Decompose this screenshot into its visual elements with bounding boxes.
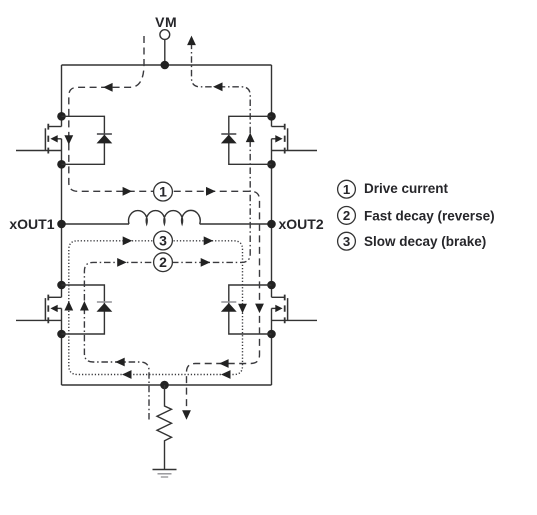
- wire top rail: [62, 64, 272, 66]
- arrow path1 left (bottom): [219, 359, 229, 368]
- node Q4 drain: [267, 281, 276, 290]
- legend circled 3: [338, 232, 356, 250]
- svg-text:VM: VM: [155, 14, 177, 30]
- legend label fast decay: [364, 208, 495, 223]
- arrow path3 left (bottom, left): [122, 370, 132, 379]
- legend label slow decay: [364, 234, 486, 249]
- node Q4 source: [267, 330, 276, 339]
- node circled 2 on path2: [154, 253, 173, 272]
- arrow path1 right (mid, left of circle 1): [123, 187, 133, 196]
- svg-text:Fast decay (reverse): Fast decay (reverse): [364, 208, 495, 223]
- legend label drive current: [364, 181, 449, 196]
- current path 1 drive current (dashed loop): [69, 36, 260, 411]
- wire bottom rail: [62, 384, 272, 386]
- arrow path3 right (top, right of circle 3): [204, 236, 214, 245]
- diode D1 top-left body diode: [62, 116, 113, 164]
- label xOUT1: [9, 216, 54, 232]
- arrow path3 down (bottom-right branch): [238, 304, 247, 314]
- transistor Q4 bottom-right NMOS: [272, 295, 318, 324]
- node circled 1 on path1: [154, 182, 173, 201]
- arrow path3 up (bottom-left branch): [64, 301, 73, 311]
- arrow path1 down (bottom-right branch): [255, 304, 264, 314]
- transistor Q3 bottom-left NMOS: [16, 295, 62, 324]
- node Q1 source: [57, 160, 66, 169]
- node Q3 drain: [57, 281, 66, 290]
- svg-text:2: 2: [343, 208, 350, 223]
- legend circled 1: [338, 180, 356, 198]
- arrow path2 right (mid, left of circle 2): [117, 258, 127, 267]
- arrow path1 down (to sense resistor): [182, 410, 191, 420]
- current path 2 fast decay (dash-dot loop): [84, 45, 250, 420]
- node VM junction: [161, 61, 170, 70]
- VM terminal: [155, 14, 177, 65]
- node xOUT2: [267, 220, 276, 229]
- arrow path1 left (top): [103, 83, 113, 92]
- node Q2 source: [267, 160, 276, 169]
- svg-text:2: 2: [159, 254, 167, 270]
- arrow path2 up (top-right branch): [246, 133, 255, 143]
- transistor Q2 top-right NMOS: [272, 124, 318, 154]
- arrow path1 down (top-left branch): [64, 135, 73, 145]
- svg-text:xOUT1: xOUT1: [9, 216, 54, 232]
- diode D2 top-right body diode: [221, 116, 272, 164]
- arrow path1 right (mid, right of circle 1): [206, 187, 216, 196]
- arrow path3 left (bottom, right): [221, 370, 231, 379]
- node Q1 drain: [57, 112, 66, 121]
- transistor Q1 top-left NMOS: [16, 124, 62, 154]
- svg-text:xOUT2: xOUT2: [279, 216, 324, 232]
- ground: [153, 470, 177, 478]
- diode D4 bottom-right body diode: [221, 285, 272, 334]
- wire right edge: [271, 65, 273, 385]
- node sense junction: [160, 381, 169, 390]
- arrow path2 left (bottom): [115, 358, 125, 367]
- svg-text:Drive current: Drive current: [364, 181, 449, 196]
- svg-text:Slow decay (brake): Slow decay (brake): [364, 234, 486, 249]
- arrow path2 right (mid, right of circle 2): [201, 258, 211, 267]
- inductor L motor winding: [129, 210, 201, 224]
- label xOUT2: [279, 216, 324, 232]
- svg-text:3: 3: [343, 234, 350, 249]
- node circled 3 on path3: [154, 231, 173, 250]
- node Q2 drain: [267, 112, 276, 121]
- svg-text:3: 3: [159, 233, 167, 249]
- node xOUT1: [57, 220, 66, 229]
- wire left edge: [61, 65, 63, 385]
- node Q3 source: [57, 330, 66, 339]
- arrow path2 up (bottom-left branch): [80, 301, 89, 311]
- svg-text:1: 1: [343, 182, 350, 197]
- resistor R sense: [157, 385, 172, 470]
- legend circled 2: [338, 207, 356, 225]
- current path 3 slow decay (dotted loop): [69, 241, 243, 375]
- arrow path2 left (top): [213, 82, 223, 91]
- arrow path3 right (top, left of circle 3): [123, 236, 133, 245]
- svg-text:1: 1: [159, 184, 167, 200]
- arrow path2 up (exit to VM): [187, 36, 196, 46]
- wire mid rail xOUT1-xOUT2: [62, 223, 272, 225]
- diode D3 bottom-left body diode: [62, 285, 113, 334]
